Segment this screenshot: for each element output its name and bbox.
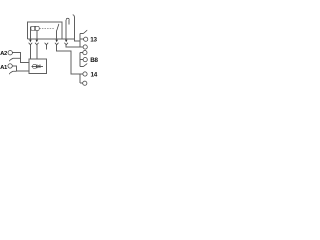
svg-text:13: 13 [90,37,97,44]
svg-text:A1: A1 [0,65,8,71]
svg-text:14: 14 [91,71,98,78]
svg-text:B8: B8 [90,57,98,64]
svg-text:A2: A2 [0,51,8,57]
